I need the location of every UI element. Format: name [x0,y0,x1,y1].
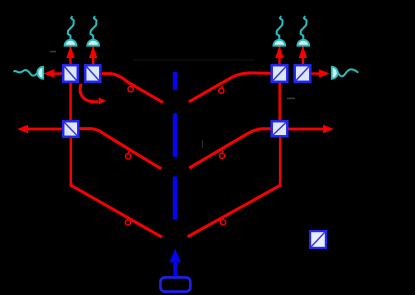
wire middle left beam [80,129,162,169]
faint tick right [287,97,295,99]
wire left upper vertical [69,83,72,121]
pump beam dash 3 [173,177,178,220]
wire right upper vertical [278,83,281,121]
beam splitter BS3 [272,65,288,82]
beam splitter mid-right [272,121,288,136]
wire right bottom diagonal [188,184,281,237]
beam splitter BS1 [63,65,78,82]
arrow up detector 4 [299,45,307,64]
wire left bottom diagonal [71,184,162,237]
faint crystal line [133,59,255,61]
photon loop middle-left [126,151,131,159]
wire right lower vertical [279,138,282,186]
wire middle right beam [189,129,270,168]
beam splitter mid-left [63,121,78,137]
pigtail wire detector 4 [301,17,307,40]
arrow up detector 2 [89,45,97,64]
detector dome 1 [65,40,77,46]
arrow left mid output [17,125,62,133]
pump beam dash 2 [173,114,178,158]
pump arrow from source [169,249,181,277]
detector dome 3 [273,40,285,46]
photon loop middle-right [220,151,225,159]
detector dome 2 [87,40,99,46]
arrow up detector 1 [66,45,74,64]
arrow left into side detector [43,69,62,77]
pigtail wire detector 3 [277,17,283,40]
wire left lower vertical [70,138,73,186]
arrow right into side detector [312,69,330,77]
arrow right mid output [289,125,334,133]
pigtail wire right detector [338,69,358,76]
beam splitter BS4 [295,65,311,82]
faint tick mid [202,140,204,148]
pigtail wire left detector [14,70,37,76]
faint tick left [50,51,56,53]
beam splitter BS2 [85,65,100,82]
detector dome right side [332,67,338,79]
photon loop bottom-right [220,217,225,225]
photon loop top-right [219,86,224,94]
wire top left beam [102,74,163,103]
source box [160,277,190,291]
detector dome 4 [297,40,309,46]
arrow up detector 3 [275,45,283,64]
photon loop top-left [128,84,133,92]
pigtail wire detector 2 [90,17,96,40]
pump beam dash 1 [173,72,178,90]
detector dome left side [37,67,43,79]
photon loop bottom-left [125,217,130,225]
beam splitter legend [310,231,326,248]
pigtail wire detector 1 [68,17,74,40]
curved feedback arrow [80,84,106,104]
wire top right beam [189,73,271,102]
